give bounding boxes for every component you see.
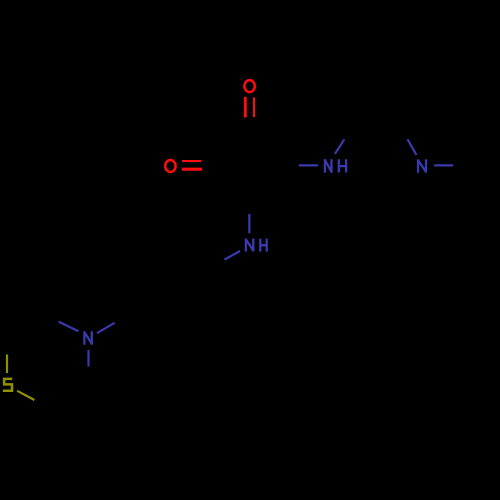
amine N3 label (NH right of ring) (325, 159, 346, 173)
double bond C2=O2 (182, 161, 202, 169)
wire N1-C(aryl para) (97, 323, 115, 333)
wire N1-C6ring (87, 350, 89, 367)
wire N2-C4 (248, 214, 250, 233)
wire N4-C(pyridine C6) (434, 164, 453, 166)
oxygen O1 (top ketone) (244, 80, 254, 92)
sulfur S1 label (3, 379, 12, 391)
wire N3-CH2 (335, 139, 344, 154)
anilino N2 label (NH below ring) (246, 239, 267, 252)
wire S1-C5ring (17, 391, 34, 400)
pyridine N4 label (418, 159, 426, 173)
oxygen O2 (left ketone) (165, 160, 175, 172)
wire S1-C3ring (6, 355, 8, 374)
wire N1-C2ring (59, 322, 79, 332)
double bond C1=O1 (245, 97, 254, 118)
wire N3-C3 (299, 164, 318, 166)
wire N4-C(pyridine C2) (408, 139, 417, 155)
thiomorpholine N1 label (84, 331, 91, 345)
wire N2-C(aryl) (224, 251, 240, 260)
